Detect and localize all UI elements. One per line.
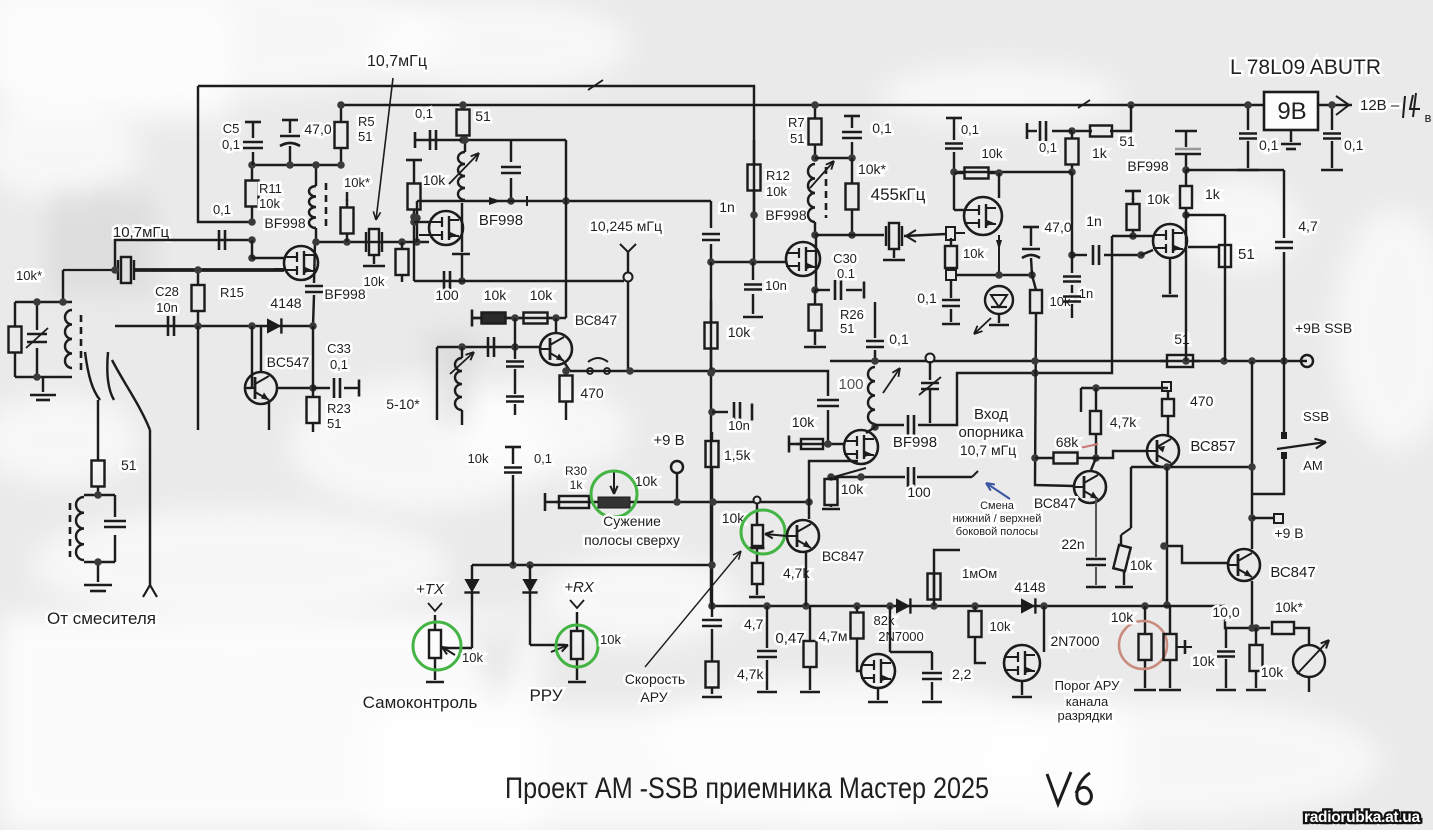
svg-text:4148: 4148	[1014, 579, 1045, 595]
svg-text:51: 51	[790, 131, 804, 146]
svg-text:10k: 10k	[728, 324, 752, 340]
svg-text:47,0: 47,0	[1044, 219, 1071, 235]
svg-text:BF998: BF998	[324, 286, 365, 302]
svg-text:R5: R5	[358, 114, 375, 129]
svg-text:BC547: BC547	[267, 354, 310, 370]
svg-text:R23: R23	[327, 401, 351, 416]
svg-text:ВС847: ВС847	[822, 548, 865, 564]
svg-text:1,5k: 1,5k	[724, 447, 751, 463]
svg-text:1k: 1k	[1205, 186, 1221, 202]
svg-text:разрядки: разрядки	[1058, 708, 1113, 723]
svg-text:470: 470	[580, 385, 604, 401]
svg-text:C30: C30	[833, 251, 857, 266]
svg-text:51: 51	[1119, 133, 1135, 149]
svg-text:1n: 1n	[1079, 286, 1093, 301]
svg-text:10k: 10k	[982, 146, 1003, 161]
svg-text:68k: 68k	[1056, 434, 1080, 450]
svg-text:C5: C5	[223, 121, 240, 136]
svg-text:АРУ: АРУ	[640, 689, 667, 705]
svg-text:0,47: 0,47	[775, 630, 804, 647]
svg-text:ВС857: ВС857	[1190, 438, 1235, 455]
svg-text:в: в	[1425, 110, 1432, 125]
svg-text:10,7мГц: 10,7мГц	[367, 53, 427, 70]
svg-text:10k: 10k	[1111, 609, 1135, 625]
svg-text:ВС847: ВС847	[1270, 564, 1315, 581]
svg-text:10k: 10k	[990, 619, 1011, 634]
svg-text:Проект АМ -SSB приемника Масте: Проект АМ -SSB приемника Мастер 2025	[505, 772, 989, 805]
svg-text:ВС847: ВС847	[1034, 495, 1077, 511]
svg-text:10k: 10k	[841, 481, 865, 497]
svg-text:+TX: +TX	[416, 581, 445, 598]
svg-text:51: 51	[327, 416, 341, 431]
svg-text:10n: 10n	[728, 418, 750, 433]
svg-text:BF998: BF998	[264, 215, 305, 231]
svg-text:BF998: BF998	[479, 212, 523, 229]
svg-text:Сужение: Сужение	[603, 513, 661, 529]
svg-text:Смена: Смена	[980, 500, 1015, 512]
svg-text:0,1: 0,1	[534, 451, 552, 466]
svg-text:4,7k: 4,7k	[737, 666, 764, 682]
svg-text:470: 470	[1190, 393, 1214, 409]
svg-text:51: 51	[840, 321, 854, 336]
svg-text:4,7: 4,7	[1298, 218, 1318, 234]
svg-text:10k: 10k	[792, 414, 816, 430]
svg-text:10k: 10k	[766, 184, 787, 199]
svg-text:0,1: 0,1	[213, 202, 231, 217]
svg-text:полосы сверху: полосы сверху	[584, 532, 680, 548]
svg-text:10k: 10k	[423, 172, 447, 188]
svg-text:AM: AM	[1303, 458, 1323, 473]
svg-text:10,245 мГц: 10,245 мГц	[590, 218, 662, 234]
svg-text:BF998: BF998	[765, 207, 806, 223]
svg-text:РРУ: РРУ	[529, 686, 562, 705]
svg-text:5-10*: 5-10*	[386, 396, 420, 412]
svg-text:0,1: 0,1	[1344, 137, 1364, 153]
svg-text:Порог АРУ: Порог АРУ	[1055, 678, 1120, 693]
svg-text:1k: 1k	[570, 478, 584, 492]
svg-text:R7: R7	[788, 115, 805, 130]
svg-text:0,1: 0,1	[415, 106, 433, 121]
svg-text:1мОм: 1мОм	[962, 566, 997, 581]
svg-text:2,2: 2,2	[952, 666, 972, 682]
svg-text:10k*: 10k*	[858, 161, 887, 177]
svg-text:R30: R30	[565, 464, 587, 478]
svg-text:4,7м: 4,7м	[818, 628, 847, 644]
svg-text:Вход: Вход	[974, 406, 1008, 423]
svg-text:51: 51	[475, 108, 491, 124]
svg-text:10k*: 10k*	[1275, 599, 1304, 615]
svg-text:9В: 9В	[1277, 98, 1306, 125]
svg-text:0,1: 0,1	[222, 137, 240, 152]
svg-text:2N7000: 2N7000	[1050, 633, 1099, 649]
svg-text:10k: 10k	[1147, 191, 1171, 207]
svg-text:51: 51	[1238, 246, 1255, 263]
svg-text:1n: 1n	[1086, 213, 1102, 229]
svg-text:10k: 10k	[1130, 557, 1154, 573]
svg-text:10n: 10n	[765, 278, 787, 293]
svg-text:10k: 10k	[364, 274, 385, 289]
svg-text:0,1: 0,1	[1259, 137, 1279, 153]
svg-text:0,1: 0,1	[1039, 140, 1057, 155]
svg-text:опорника: опорника	[958, 424, 1024, 441]
svg-text:0,1: 0,1	[330, 357, 348, 372]
svg-text:C28: C28	[155, 284, 179, 299]
svg-text:2N7000: 2N7000	[878, 629, 924, 644]
svg-text:10k*: 10k*	[16, 268, 42, 283]
svg-text:0,1: 0,1	[961, 122, 979, 137]
svg-text:100: 100	[435, 287, 459, 303]
svg-text:R15: R15	[220, 285, 244, 300]
svg-text:10k: 10k	[530, 287, 554, 303]
svg-text:47,0: 47,0	[304, 121, 331, 137]
svg-text:10k: 10k	[484, 287, 508, 303]
svg-text:Самоконтроль: Самоконтроль	[363, 693, 478, 712]
svg-text:C33: C33	[327, 341, 351, 356]
svg-text:100: 100	[838, 376, 863, 393]
svg-text:100: 100	[907, 484, 931, 500]
svg-text:4,7: 4,7	[744, 616, 764, 632]
svg-text:10k: 10k	[635, 473, 659, 489]
svg-text:10,0: 10,0	[1212, 604, 1239, 620]
svg-text:10k: 10k	[600, 632, 621, 647]
svg-text:10k: 10k	[259, 196, 280, 211]
svg-text:10k: 10k	[963, 246, 984, 261]
svg-text:10,7 мГц: 10,7 мГц	[960, 442, 1016, 458]
svg-text:51: 51	[121, 457, 137, 473]
svg-text:канала: канала	[1066, 694, 1109, 709]
svg-text:0.1: 0.1	[837, 266, 855, 281]
svg-text:51: 51	[358, 129, 372, 144]
svg-text:radiorubka.at.ua: radiorubka.at.ua	[1304, 809, 1420, 826]
svg-text:10,7мГц: 10,7мГц	[113, 224, 170, 241]
svg-text:10k: 10k	[462, 650, 483, 665]
svg-text:1k: 1k	[1092, 145, 1108, 161]
svg-text:10k*: 10k*	[344, 175, 370, 190]
svg-text:нижний / верхней: нижний / верхней	[953, 513, 1042, 525]
svg-text:+9В SSB: +9В SSB	[1295, 320, 1352, 336]
svg-text:4148: 4148	[270, 295, 301, 311]
svg-text:R26: R26	[840, 307, 864, 322]
svg-text:10k: 10k	[1261, 664, 1285, 680]
svg-text:+9 В: +9 В	[1274, 525, 1303, 541]
svg-text:1n: 1n	[719, 199, 735, 215]
svg-text:R11: R11	[259, 181, 282, 196]
svg-text:+RX: +RX	[564, 579, 595, 596]
svg-text:0,1: 0,1	[917, 290, 937, 306]
svg-text:BF998: BF998	[1127, 158, 1168, 174]
svg-text:ВС847: ВС847	[575, 312, 618, 328]
svg-text:SSB: SSB	[1303, 409, 1329, 424]
svg-text:L 78L09 ABUTR: L 78L09 ABUTR	[1230, 56, 1381, 79]
svg-text:22n: 22n	[1061, 536, 1084, 552]
svg-text:12В –: 12В –	[1360, 97, 1400, 114]
svg-text:Скорость: Скорость	[625, 671, 685, 687]
svg-text:боковой полосы: боковой полосы	[956, 526, 1039, 538]
svg-text:+9 В: +9 В	[653, 432, 684, 449]
svg-text:R12: R12	[766, 168, 790, 183]
svg-text:82k: 82k	[874, 613, 895, 628]
svg-text:От смесителя: От смесителя	[47, 609, 156, 628]
svg-text:455кГц: 455кГц	[871, 185, 926, 204]
svg-text:0,1: 0,1	[872, 120, 892, 136]
svg-text:10k: 10k	[1192, 653, 1216, 669]
svg-text:10k: 10k	[468, 451, 489, 466]
svg-text:BF998: BF998	[893, 434, 937, 451]
svg-text:0,1: 0,1	[889, 331, 909, 347]
svg-text:10n: 10n	[156, 300, 178, 315]
svg-text:51: 51	[1174, 331, 1190, 347]
svg-text:4,7k: 4,7k	[1110, 414, 1137, 430]
